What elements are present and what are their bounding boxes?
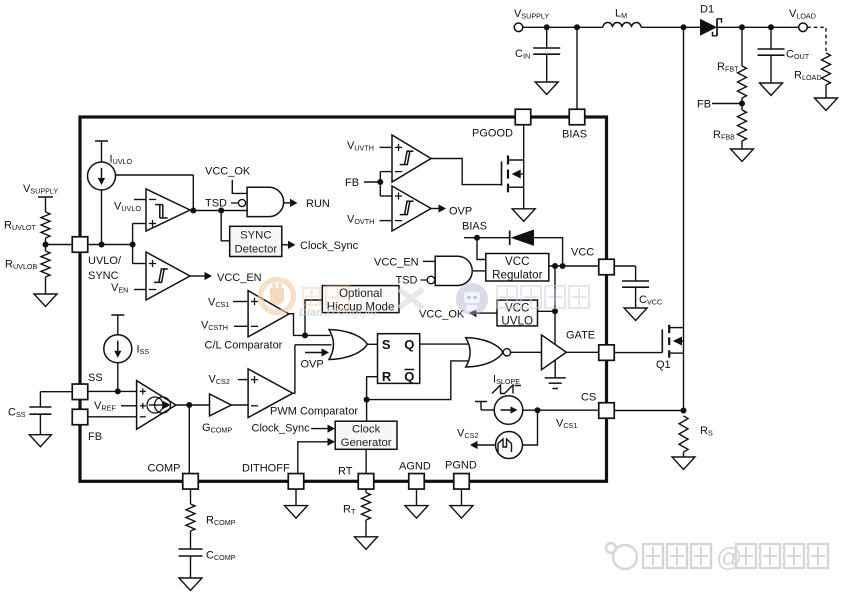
svg-text:FB: FB [88,431,102,443]
svg-text:Regulator: Regulator [492,269,542,282]
svg-text:VCC: VCC [571,247,594,259]
svg-text:PWM Comparator: PWM Comparator [270,406,358,418]
svg-text:AGND: AGND [399,461,431,473]
svg-text:C/L Comparator: C/L Comparator [205,340,283,352]
svg-text:RUN: RUN [306,198,330,210]
svg-text:UVLO: UVLO [501,315,533,328]
svg-text:Q: Q [404,337,414,352]
svg-text:Q1: Q1 [656,359,671,371]
svg-text:FB: FB [697,99,711,111]
svg-text:S: S [382,337,391,352]
svg-text:VCC_EN: VCC_EN [374,257,419,269]
svg-text:VCC_OK: VCC_OK [205,166,251,178]
svg-text:OVP: OVP [449,206,472,218]
svg-text:BIAS: BIAS [562,129,587,141]
svg-text:BIAS: BIAS [462,221,487,233]
svg-text:VCC: VCC [505,255,529,268]
svg-text:Q: Q [404,369,414,384]
svg-text:VCC_OK: VCC_OK [419,309,465,321]
svg-text:CS: CS [581,392,596,404]
svg-text:R: R [382,369,392,384]
svg-text:Dian: Dian [299,307,323,319]
svg-text:SS: SS [88,372,103,384]
svg-text:TSD: TSD [396,275,418,287]
svg-text:Clock_Sync: Clock_Sync [300,240,359,252]
svg-text:COMP: COMP [148,463,181,475]
svg-text:PGND: PGND [445,460,477,472]
svg-text:OVP: OVP [301,359,324,371]
svg-text:SYNC: SYNC [88,270,119,282]
svg-text:FB: FB [345,177,359,189]
svg-text:Generator: Generator [341,437,392,449]
svg-text:SYNC: SYNC [240,230,271,242]
svg-text:Detector: Detector [234,244,277,256]
svg-text:ZiXingQiu: ZiXingQiu [324,307,377,319]
svg-text:PGOOD: PGOOD [472,128,513,140]
svg-text:DITHOFF: DITHOFF [242,463,290,475]
svg-text:RT: RT [338,466,353,478]
svg-text:VCC_EN: VCC_EN [217,272,262,284]
svg-text:Clock: Clock [352,424,381,436]
svg-text:Clock_Sync: Clock_Sync [252,423,311,435]
svg-text:UVLO/: UVLO/ [88,255,122,267]
svg-text:TSD: TSD [205,198,227,210]
svg-text:GATE: GATE [566,330,595,342]
svg-text:D1: D1 [700,4,714,16]
